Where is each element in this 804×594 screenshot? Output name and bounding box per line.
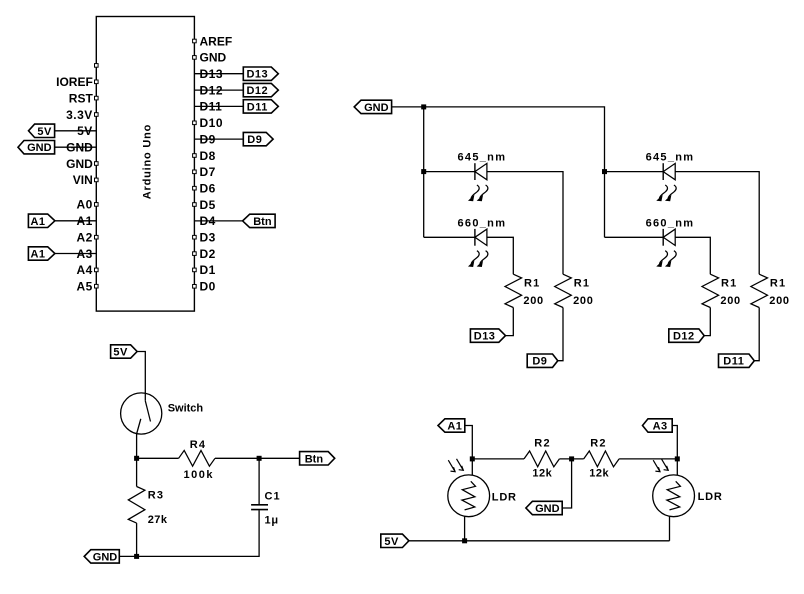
svg-text:RST: RST [69, 91, 94, 105]
svg-text:D0: D0 [200, 280, 216, 294]
svg-text:200: 200 [523, 295, 543, 307]
svg-text:GND: GND [27, 142, 52, 154]
svg-text:R1: R1 [721, 277, 737, 289]
svg-text:GND: GND [200, 51, 227, 65]
svg-text:D12: D12 [673, 331, 695, 343]
svg-text:D11: D11 [247, 101, 268, 113]
svg-text:D12: D12 [246, 85, 268, 97]
svg-text:D13: D13 [246, 69, 268, 81]
svg-text:12k: 12k [589, 467, 609, 479]
svg-text:3.3V: 3.3V [66, 108, 93, 122]
svg-text:27k: 27k [148, 514, 168, 526]
svg-text:200: 200 [769, 295, 789, 307]
svg-text:D3: D3 [200, 231, 216, 245]
svg-text:D11: D11 [723, 356, 744, 368]
svg-text:D10: D10 [200, 116, 224, 130]
svg-text:A1: A1 [30, 216, 45, 228]
svg-text:R1: R1 [574, 277, 590, 289]
svg-text:Arduino Uno: Arduino Uno [142, 124, 154, 199]
svg-text:660_nm: 660_nm [458, 217, 507, 229]
svg-text:R3: R3 [148, 489, 164, 501]
svg-text:Btn: Btn [253, 216, 272, 228]
svg-text:LDR: LDR [698, 491, 723, 503]
svg-text:R1: R1 [524, 277, 540, 289]
svg-text:GND: GND [93, 551, 118, 563]
svg-text:D6: D6 [200, 182, 216, 196]
svg-text:GND: GND [535, 503, 560, 515]
svg-text:12k: 12k [532, 467, 552, 479]
svg-text:R2: R2 [590, 438, 606, 450]
svg-text:GND: GND [66, 157, 93, 171]
svg-text:5V: 5V [37, 126, 52, 138]
svg-text:645_nm: 645_nm [646, 152, 695, 164]
svg-text:GND: GND [364, 102, 389, 114]
svg-text:D1: D1 [200, 263, 216, 277]
svg-text:A3: A3 [653, 421, 668, 433]
svg-text:5V: 5V [113, 347, 128, 359]
svg-text:645_nm: 645_nm [458, 152, 507, 164]
svg-text:D8: D8 [200, 149, 216, 163]
svg-text:IOREF: IOREF [56, 75, 93, 89]
svg-text:200: 200 [573, 295, 593, 307]
svg-text:A1: A1 [30, 249, 45, 261]
svg-text:A4: A4 [76, 263, 92, 277]
svg-text:A5: A5 [76, 280, 92, 294]
svg-text:R1: R1 [770, 277, 786, 289]
svg-text:AREF: AREF [200, 34, 233, 48]
svg-text:D9: D9 [247, 134, 262, 146]
svg-text:D2: D2 [200, 247, 216, 261]
svg-text:D7: D7 [200, 165, 216, 179]
svg-text:D13: D13 [474, 331, 496, 343]
svg-text:D5: D5 [200, 198, 216, 212]
svg-text:5V: 5V [384, 536, 399, 548]
svg-text:200: 200 [720, 295, 740, 307]
svg-text:660_nm: 660_nm [646, 217, 695, 229]
svg-text:LDR: LDR [492, 491, 517, 503]
svg-text:A2: A2 [76, 231, 92, 245]
svg-text:D9: D9 [532, 356, 547, 368]
svg-text:1μ: 1μ [265, 515, 279, 527]
svg-text:A0: A0 [76, 198, 92, 212]
svg-text:Switch: Switch [168, 402, 204, 414]
svg-text:Btn: Btn [305, 453, 324, 465]
svg-text:100k: 100k [184, 469, 214, 481]
svg-text:C1: C1 [265, 491, 281, 503]
svg-text:R4: R4 [190, 439, 206, 451]
svg-text:R2: R2 [534, 438, 550, 450]
svg-text:A1: A1 [447, 421, 462, 433]
svg-text:VIN: VIN [73, 173, 93, 187]
